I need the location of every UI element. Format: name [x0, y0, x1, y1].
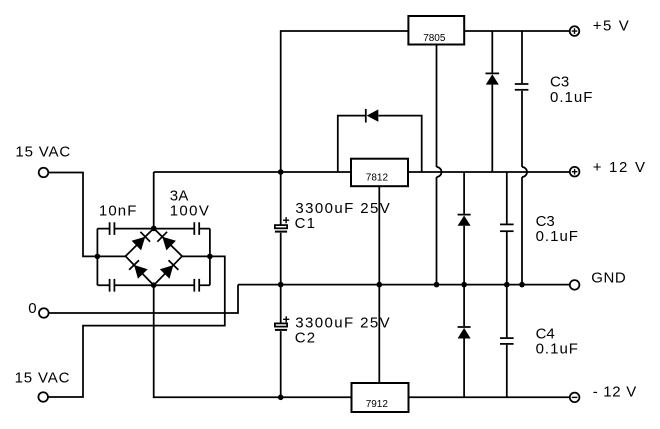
label GND: [591, 270, 626, 287]
wire tap riser to 7805 input: [281, 31, 409, 172]
bridge rectifier frame top row: [97, 228, 209, 230]
svg-text:C1: C1: [295, 215, 317, 232]
bridge rectifier frame right side: [209, 229, 211, 286]
svg-text:15 VAC: 15 VAC: [15, 143, 71, 160]
wire J3 to bridge right: [48, 256, 225, 397]
label C1 value: [295, 200, 391, 217]
label - 12 V: [593, 384, 637, 401]
label 3A: [170, 188, 189, 205]
regulator U1 7805: [408, 16, 464, 45]
wire bridge minus to 7912 input: [154, 285, 352, 397]
label + 12 V: [593, 159, 647, 176]
svg-text:0: 0: [28, 300, 36, 317]
node 7805 ground: [434, 282, 440, 288]
capacitor C3 0.1uF mid: [500, 172, 514, 285]
wire 7812 output to +12 terminal: [408, 171, 570, 173]
regulator U2 7812: [351, 159, 408, 187]
capacitor C1 3300uF: [275, 217, 289, 232]
terminal J1 15 VAC top: [39, 168, 49, 178]
capacitor C2 3300uF: [275, 316, 289, 330]
wire bridge right stub: [182, 255, 210, 257]
node regulator ground: [377, 282, 383, 288]
wire hop 7805 ground over +12 rail: [437, 167, 442, 177]
wire 7812 ground pin to 7912 ground pin: [378, 186, 380, 383]
terminal +12 V: [570, 167, 580, 177]
label C3 mid: [536, 213, 555, 230]
diode D7 ground to +12: [458, 172, 471, 285]
svg-text:C2: C2: [295, 330, 317, 347]
capacitor C4 0.1uF: [500, 285, 514, 398]
svg-text:7912: 7912: [366, 399, 389, 410]
snubber capacitor bottom-right: [194, 279, 199, 292]
wire ground node down to capacitor C2: [280, 285, 282, 324]
bridge rectifier frame left side: [96, 229, 98, 286]
label C3 top: [550, 73, 569, 90]
wire 7805 output to +5 terminal: [464, 30, 570, 32]
label C1: [295, 215, 317, 232]
svg-text:7812: 7812: [366, 172, 389, 183]
wire J1 to bridge left: [48, 173, 125, 257]
label C4: [536, 326, 555, 343]
wire 7912 output to -12 terminal: [409, 396, 570, 398]
node C3 mid ground: [504, 282, 510, 288]
node C1 ground: [278, 282, 284, 288]
regulator U3 7912: [352, 383, 409, 412]
svg-text:0.1uF: 0.1uF: [536, 341, 579, 358]
label 15 VAC top: [15, 143, 71, 160]
snubber capacitor bottom-left: [110, 279, 115, 292]
node bridge right AC: [207, 254, 213, 260]
wire C1 to ground rail: [280, 233, 282, 285]
label +5 V: [593, 17, 631, 34]
capacitor C3 0.1uF top: [515, 31, 529, 285]
wire unregulated positive rail to 7812 input: [154, 171, 351, 173]
node unregulated rail tap: [278, 169, 284, 175]
terminal GND: [570, 280, 580, 290]
label C4 value: [536, 341, 579, 358]
wire tap down to capacitor C1: [280, 172, 282, 225]
diode D3 bridge bottom-left: [129, 260, 148, 279]
terminal J3 15 VAC bottom: [38, 392, 48, 402]
terminal +5 V: [570, 26, 580, 36]
wire ground rail: [238, 284, 570, 286]
label 0: [28, 300, 36, 317]
bridge diamond edge wires: [126, 228, 183, 285]
diode D4 bridge bottom-right: [160, 260, 179, 279]
svg-text:- 12 V: - 12 V: [593, 384, 637, 401]
wire C2 to minus rail: [280, 331, 282, 397]
terminal -12 V: [570, 393, 580, 403]
svg-text:0.1uF: 0.1uF: [550, 89, 593, 106]
diode D2 bridge top-right: [157, 232, 176, 251]
svg-text:GND: GND: [591, 270, 626, 287]
terminal J2 0: [39, 308, 49, 318]
wire hop C3 over +12 rail: [522, 167, 527, 177]
diode D6 across 7812: [338, 109, 422, 172]
snubber capacitor top-right: [194, 222, 199, 235]
wire bridge plus riser: [153, 172, 155, 228]
wire J2 to ground rail: [49, 285, 238, 313]
svg-text:10nF: 10nF: [99, 202, 138, 219]
bridge rectifier frame bottom row: [97, 284, 209, 286]
label 15 VAC bottom: [15, 370, 71, 387]
svg-text:100V: 100V: [170, 202, 211, 219]
node C2 minus rail: [278, 395, 284, 401]
node bridge plus: [151, 226, 157, 232]
label 10nF: [99, 202, 138, 219]
node bridge minus: [151, 282, 157, 288]
node bridge left AC: [95, 254, 101, 260]
wire 7805 ground pin: [436, 45, 438, 285]
label C3 top value: [550, 89, 593, 106]
node D7 ground: [461, 282, 467, 288]
svg-text:+ 12 V: + 12 V: [593, 159, 647, 176]
label C2: [295, 330, 317, 347]
diode D5 +12 to +5: [486, 31, 500, 172]
svg-text:15 VAC: 15 VAC: [15, 370, 71, 387]
diode D8 minus 12 to ground: [458, 285, 471, 398]
label C3 mid value: [536, 228, 579, 245]
label C2 value: [295, 315, 391, 332]
diode D1 bridge top-left: [132, 232, 151, 251]
node C3 ground: [519, 282, 525, 288]
snubber capacitor top-left 10nF: [110, 222, 115, 235]
svg-text:+5 V: +5 V: [593, 17, 631, 34]
svg-text:0.1uF: 0.1uF: [536, 228, 579, 245]
svg-text:7805: 7805: [423, 33, 446, 44]
label 100V: [170, 202, 211, 219]
